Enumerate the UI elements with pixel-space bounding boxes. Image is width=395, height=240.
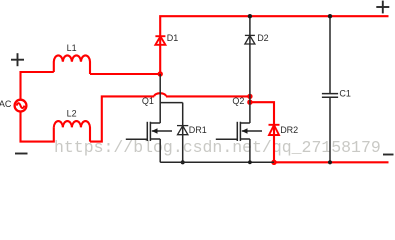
svg-text:L1: L1 (67, 43, 77, 53)
svg-text:DR1: DR1 (189, 125, 207, 135)
junction dot DR1 bottom (181, 160, 185, 164)
AC source (15, 100, 27, 112)
wire: Q1 drain T to DR1 (160, 102, 183, 104)
svg-text:https://blog.csdn.net/qq_27158: https://blog.csdn.net/qq_27158179 (54, 138, 381, 157)
diode D1 (155, 36, 165, 45)
svg-text:Q1: Q1 (142, 96, 154, 106)
positive terminal + (left, AC) (11, 53, 24, 66)
capacitor C1 (329, 16, 331, 93)
wire: L2 to middle rail riser (90, 96, 154, 141)
DR1 vertical wire (182, 103, 184, 163)
svg-text:AC: AC (0, 99, 12, 109)
node A junction dot (158, 71, 163, 76)
wire: AC top to L1 (21, 72, 54, 101)
node B junction dot (247, 94, 252, 99)
svg-text:D2: D2 (257, 33, 269, 43)
inductor L2 (54, 121, 90, 141)
middle rail to node B (166, 95, 250, 97)
junction dot D2 top (248, 14, 252, 18)
bottom rail (red part) (274, 161, 389, 163)
positive terminal + (top right) (376, 1, 389, 14)
wire hop over Q1 drain (154, 93, 166, 96)
transistor Q1 (126, 74, 172, 162)
junction dot DR2 bottom (271, 160, 276, 165)
transistor Q2 (216, 122, 262, 163)
negative terminal - (left, AC) (15, 153, 28, 155)
inductor L1 (54, 55, 90, 74)
svg-text:Q2: Q2 (232, 96, 244, 106)
junction dot C1 bottom (328, 160, 332, 164)
wire: node C to DR2 (250, 102, 274, 162)
junction dot C1 top (328, 14, 332, 18)
top rail (160, 16, 388, 74)
wire: AC bottom to L2 (21, 111, 54, 142)
diode DR2 (269, 125, 280, 135)
D2 / Q2 vertical wire (249, 16, 251, 123)
svg-text:L2: L2 (67, 108, 77, 118)
junction dot Q2 source bottom (248, 160, 252, 164)
diode DR1 (177, 126, 188, 135)
wire: L1 to node A (90, 73, 160, 75)
negative terminal - (bottom right) (383, 154, 394, 156)
svg-text:C1: C1 (339, 89, 351, 99)
bottom rail (black part) (160, 161, 274, 163)
svg-text:D1: D1 (167, 33, 179, 43)
node C junction dot (247, 100, 252, 105)
svg-text:DR2: DR2 (280, 125, 298, 135)
diode D2 (245, 35, 255, 44)
